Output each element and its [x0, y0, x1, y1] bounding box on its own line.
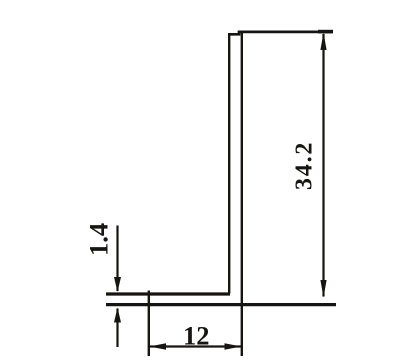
arrowhead 1.4 upper (down) — [114, 277, 121, 292]
L-profile inner top face of horizontal leg with left extension line for 1.4 — [106, 292, 230, 295]
dimension line 1.4 upper segment — [116, 226, 118, 292]
top extension line end thickening (scan blob) — [318, 30, 333, 34]
svg-text:12: 12 — [183, 321, 210, 351]
L-profile right face of vertical leg continuing as right extension line of 12 — [241, 32, 243, 357]
L-profile bottom face of horizontal leg with left extension (1.4) and right extension (34.2) — [106, 303, 336, 306]
L-profile left face of vertical leg — [228, 34, 230, 294]
dimension line 34.2 — [322, 34, 324, 297]
svg-text:34.2: 34.2 — [292, 141, 318, 190]
arrowhead 1.4 lower (up) — [114, 308, 121, 323]
dimension line 1.4 lower segment — [116, 309, 118, 348]
arrowhead 34.2 top (up) — [320, 33, 326, 51]
L-profile top edge of vertical leg with right extension line for 34.2 — [228, 32, 333, 34]
dimension line 12 — [150, 345, 241, 347]
arrowhead 34.2 bottom (down) — [320, 280, 326, 298]
arrowhead 12 left — [149, 343, 166, 350]
arrowhead 12 right — [225, 343, 242, 350]
L-profile left end face of horizontal leg continuing as left extension line of 12 — [148, 291, 150, 357]
svg-text:1.4: 1.4 — [84, 223, 114, 256]
